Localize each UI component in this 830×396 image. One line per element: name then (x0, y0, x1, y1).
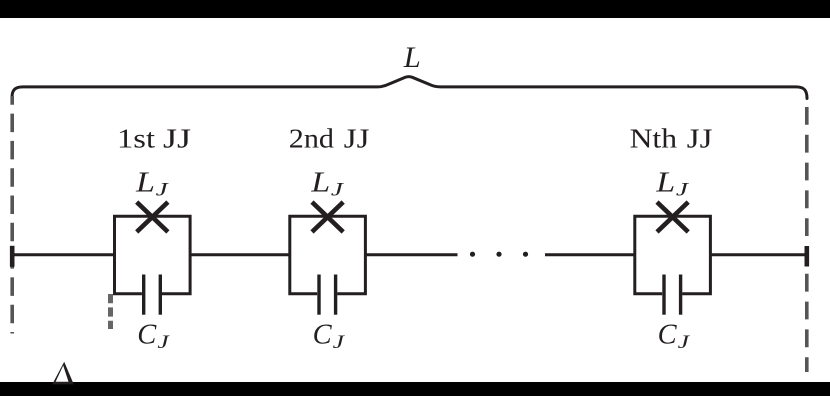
main wire segment 5 (711, 253, 807, 256)
main wire segment 3 (366, 253, 458, 256)
junction cross X (2nd) (312, 202, 343, 232)
capacitor CJ plates (2nd) (317, 275, 320, 315)
svg-text:2nd: 2nd (289, 124, 335, 154)
svg-text:JJ: JJ (687, 124, 713, 154)
bottom black border strip (0, 382, 830, 396)
right terminal tick (804, 246, 809, 267)
svg-text:1st: 1st (117, 124, 156, 154)
node spacing label Delta (52, 362, 74, 385)
JJ box outline (Nth) (635, 216, 711, 294)
svg-text:L: L (655, 167, 675, 198)
main wire segment 1 (12, 253, 115, 256)
left dashed boundary line (10, 96, 14, 334)
svg-text:C: C (313, 320, 333, 351)
dotted line below 1st JJ (108, 294, 113, 329)
svg-text:Nth: Nth (630, 124, 678, 154)
left terminal tick (10, 246, 15, 267)
svg-text:L: L (135, 167, 155, 198)
junction cross X (Nth) (657, 202, 688, 232)
main wire segment 4 (545, 253, 635, 256)
svg-text:JJ: JJ (163, 124, 191, 154)
top black border strip (0, 0, 830, 18)
svg-text:JJ: JJ (344, 124, 370, 154)
svg-text:L: L (403, 41, 421, 74)
brace spanning the array (12, 77, 807, 99)
JJ box outline (1st) (115, 216, 191, 294)
right dashed boundary line (805, 107, 809, 372)
main wire segment 2 (190, 253, 290, 256)
svg-text:L: L (310, 167, 330, 198)
svg-text:C: C (658, 320, 678, 351)
capacitor CJ plates (Nth) (662, 275, 665, 315)
junction cross X (1st) (137, 202, 168, 232)
svg-text:C: C (137, 320, 157, 351)
ellipsis dots between 2nd and Nth JJ (470, 252, 475, 257)
capacitor CJ plates (1st) (142, 275, 145, 315)
JJ box outline (2nd) (290, 216, 366, 294)
